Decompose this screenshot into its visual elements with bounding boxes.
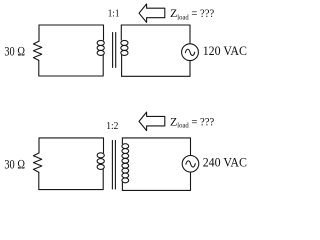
wire: top transformer primary lead upper	[103, 25, 105, 40]
transformer core (top, 1:1)	[112, 33, 114, 68]
wire: top circuit left side upper	[38, 25, 40, 41]
svg-text:= ???: = ???	[191, 6, 214, 20]
svg-text:240 VAC: 240 VAC	[203, 155, 247, 170]
wire: bottom circuit secondary-loop top	[122, 137, 190, 139]
svg-text:Z: Z	[170, 115, 177, 129]
svg-text:Z: Z	[170, 6, 177, 20]
svg-text:load: load	[177, 121, 189, 130]
wire: top circuit left side lower	[38, 60, 40, 76]
resistor 30Ω (top circuit)	[33, 41, 41, 60]
resistor 30Ω (bottom circuit)	[33, 153, 41, 172]
wire: bottom circuit right side lower	[190, 172, 192, 190]
wire: top circuit primary-loop top	[39, 24, 104, 26]
wire: top circuit right side lower	[189, 61, 191, 77]
svg-text:1:2: 1:2	[106, 121, 118, 132]
AC source V1 120 VAC (top circuit)	[182, 44, 199, 61]
wire: top circuit right side upper	[189, 25, 191, 44]
inductor: top transformer primary coil (3 loops)	[97, 40, 104, 45]
wire: top circuit secondary-loop top	[121, 24, 190, 26]
svg-text:= ???: = ???	[191, 115, 214, 129]
inductor: bottom transformer primary coil (3 loops)	[97, 153, 104, 158]
wire: bottom transformer primary lead upper	[103, 138, 105, 153]
wire: top transformer secondary lead upper	[120, 25, 122, 40]
wire: bottom transformer primary lead lower	[102, 169, 104, 190]
transformer core (bottom, 1:2)	[111, 140, 113, 189]
svg-text:30 Ω: 30 Ω	[4, 44, 25, 59]
wire: top circuit primary-loop bottom	[39, 75, 103, 77]
wire: bottom circuit primary-loop top	[39, 137, 104, 139]
wire: top circuit secondary-loop bottom	[122, 75, 190, 77]
wire: bottom circuit secondary-loop bottom	[122, 189, 190, 191]
annotation arrow (top) pointing left at Z_load	[139, 4, 165, 23]
inductor: top transformer secondary coil (3 loops)	[121, 40, 128, 45]
svg-text:1:1: 1:1	[108, 9, 120, 20]
svg-text:30 Ω: 30 Ω	[4, 157, 25, 172]
inductor: bottom transformer secondary coil (8 loops)	[122, 144, 129, 149]
wire: bottom circuit left side upper	[38, 138, 40, 153]
wire: top transformer primary lead lower	[102, 55, 104, 76]
AC source V2 240 VAC (bottom circuit)	[182, 156, 199, 173]
svg-text:load: load	[177, 12, 189, 21]
wire: top transformer secondary lead lower	[121, 55, 123, 76]
annotation arrow (bottom) pointing left at Z_load	[139, 112, 165, 131]
wire: bottom transformer secondary lead lower	[121, 183, 123, 191]
wire: bottom circuit right side upper	[190, 138, 192, 156]
wire: bottom transformer secondary lead upper	[121, 138, 123, 144]
svg-text:120 VAC: 120 VAC	[203, 43, 247, 58]
wire: bottom circuit left side lower	[38, 172, 40, 189]
wire: bottom circuit primary-loop bottom	[39, 189, 103, 191]
